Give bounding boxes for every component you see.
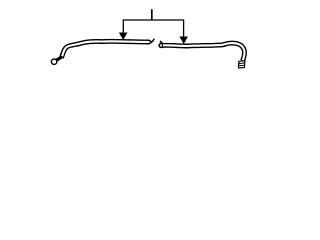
- cut curl right: [159, 43, 163, 47]
- eyelet terminal: [51, 59, 56, 64]
- ferrule ridge 2: [239, 64, 245, 66]
- callout label 1: [151, 9, 153, 19]
- cut flick left: [151, 39, 154, 43]
- hose right section outer: [162, 43, 245, 61]
- hose left section outer: [61, 41, 148, 58]
- arrow right: [179, 37, 188, 45]
- arrow left: [119, 33, 128, 41]
- cut pinch left bottom wall: [148, 42, 152, 44]
- hose end ferrule: [238, 61, 245, 68]
- ferrule ridge 1: [239, 62, 245, 65]
- hose right section inner white: [163, 43, 245, 60]
- hose left section inner white: [62, 41, 149, 56]
- cut pinch left top wall: [148, 40, 152, 42]
- crimp neck (solid): [56, 57, 61, 60]
- bracket line with legs: [123, 20, 183, 37]
- cut flick right: [160, 41, 163, 44]
